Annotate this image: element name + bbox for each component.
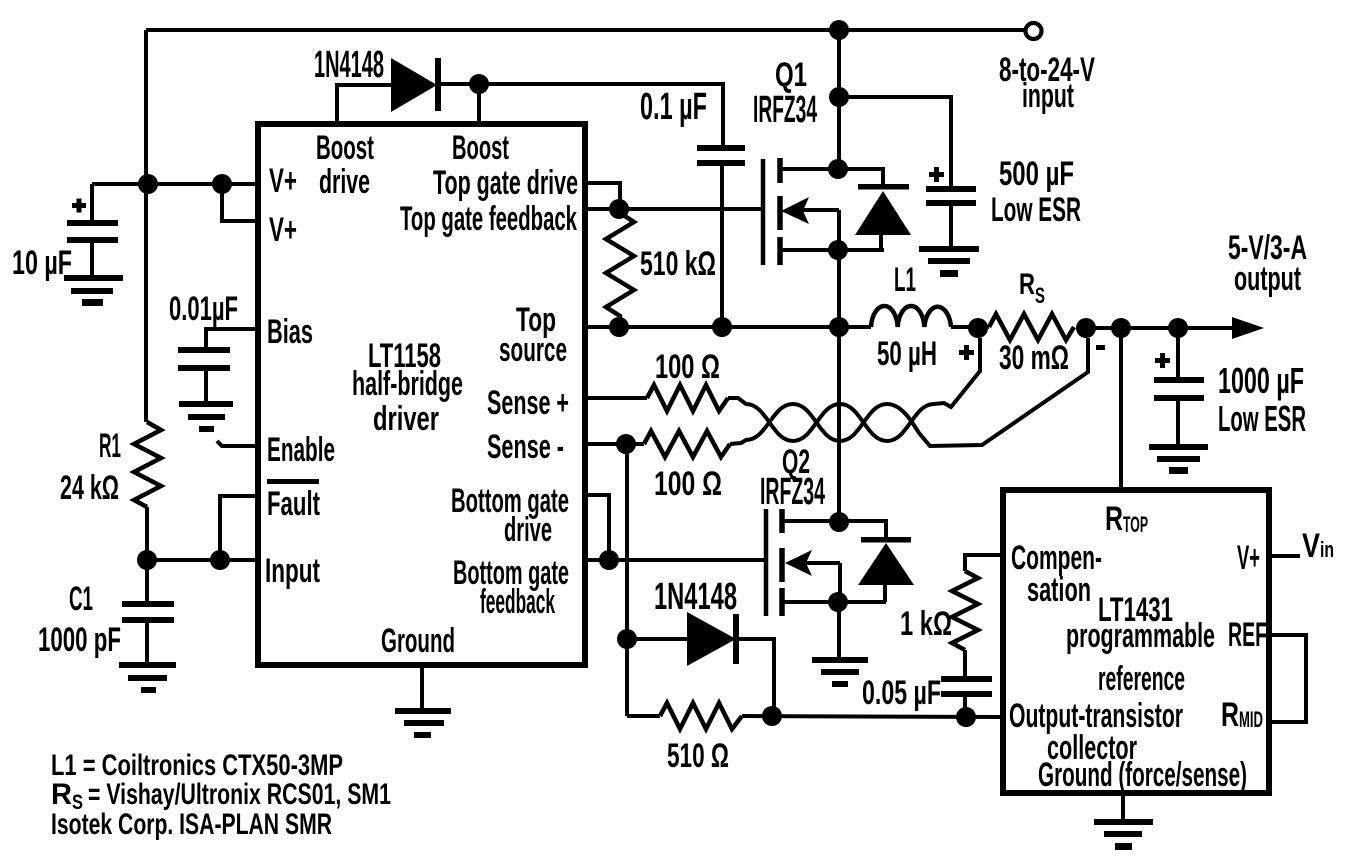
- svg-text:drive: drive: [504, 511, 552, 549]
- capacitor 0.01uF bias wire: [206, 329, 258, 350]
- transistor Q1 channel segments: [777, 158, 783, 183]
- svg-text:R: R: [51, 778, 72, 811]
- svg-text:510 Ω: 510 Ω: [667, 737, 729, 775]
- output arrowhead: [1232, 317, 1264, 339]
- transistor Q1 gate bar: [761, 159, 766, 265]
- junction phase node: [829, 317, 849, 337]
- wire diode cathode to boost node: [441, 82, 470, 86]
- capacitor 1000uF stub: [1176, 328, 1180, 379]
- wire Compensation pin: [965, 555, 1003, 571]
- svg-text:in: in: [1320, 537, 1334, 562]
- resistor 1k zigzag: [952, 571, 978, 650]
- wire 510ohm lead: [627, 714, 660, 718]
- junction L1-Rs sense+: [968, 318, 988, 338]
- polarity minus sense: [1096, 345, 1105, 350]
- svg-text:0.1 µF: 0.1 µF: [640, 86, 707, 128]
- ground C1: [119, 662, 176, 693]
- capacitor 0.1uF stem to top source: [720, 166, 724, 327]
- ground 10uF: [64, 275, 123, 306]
- svg-text:V+: V+: [269, 162, 297, 200]
- svg-text:reference: reference: [1098, 660, 1185, 698]
- diode Q1 body: [855, 184, 911, 235]
- capacitor 0.01uF plates: [178, 347, 230, 371]
- svg-text:input: input: [1022, 77, 1074, 115]
- wire Sense- pin: [585, 442, 644, 446]
- junction bottom gate: [599, 550, 619, 570]
- wire Input pin: [147, 558, 258, 562]
- wire V+ pin: [1269, 554, 1300, 558]
- wire Bottom gate feedback to Q2 gate: [585, 558, 767, 562]
- svg-text:500 µF: 500 µF: [999, 155, 1074, 193]
- svg-text:10 µF: 10 µF: [12, 244, 72, 282]
- wire Q1 drain line to body diode: [780, 169, 883, 185]
- transistor Q2 gate bar: [764, 509, 769, 616]
- diode 1N4148 boost: [391, 58, 441, 112]
- diode 1N4148 bottom: [687, 612, 739, 666]
- svg-text:1000 pF: 1000 pF: [38, 621, 121, 659]
- op-amp U1 LT1158 box: [258, 124, 585, 665]
- svg-text:IRFZ34: IRFZ34: [760, 471, 825, 513]
- svg-text:1 kΩ: 1 kΩ: [900, 605, 952, 643]
- transistor Q1 source arrow: [800, 208, 839, 212]
- transistor Q2 source arrow: [802, 561, 840, 565]
- ground Q2: [812, 657, 868, 687]
- junction boost node: [469, 74, 489, 94]
- wire Top source line: [585, 325, 871, 329]
- junction 1N4148 anode: [617, 629, 637, 649]
- junction Q2 drain: [829, 512, 849, 532]
- wire Top gate drive pin: [585, 183, 620, 201]
- polarity plus 10uF: [72, 199, 86, 213]
- polarity plus 1000uF: [1155, 353, 1170, 368]
- wire Q2 source to ground: [837, 602, 841, 657]
- wire collector line to LT1431: [742, 716, 1003, 717]
- wire diode cathode down: [739, 639, 774, 716]
- capacitor 0.01uF stem: [204, 371, 208, 402]
- capacitor 0.1uF plates: [697, 145, 745, 166]
- wire Q1 body anode stem: [879, 235, 883, 250]
- op-amp U2 LT1431 box: [1003, 490, 1269, 793]
- wire Sense+ pin to 100ohm: [585, 396, 647, 400]
- svg-text:S: S: [1035, 283, 1045, 308]
- capacitor 0.05uF stem: [963, 697, 967, 717]
- capacitor 1000uF stem: [1176, 401, 1180, 446]
- junction Q2 source: [828, 592, 848, 612]
- wire second V+ pin: [222, 184, 258, 221]
- wire Q1 source to phase node: [837, 250, 841, 327]
- svg-text:1N4148: 1N4148: [314, 44, 384, 86]
- resistor 100ohm sense+: [647, 385, 728, 411]
- svg-text:feedback: feedback: [480, 583, 555, 621]
- capacitor 500uF stem: [949, 206, 953, 248]
- polarity plus 500uF: [929, 167, 944, 182]
- svg-text:Ground (force/sense): Ground (force/sense): [1038, 756, 1247, 794]
- wire top supply rail: [146, 28, 1024, 32]
- polarity plus sense: [959, 345, 974, 360]
- wire R1 to input node: [145, 507, 149, 560]
- wire V+ horizontal to LT1158: [92, 182, 258, 186]
- wire Q2 body anode stem: [883, 585, 887, 602]
- capacitor C1 stem top: [145, 560, 149, 604]
- svg-text:Top gate feedback: Top gate feedback: [400, 200, 577, 238]
- wire twisted pair sense-: [730, 338, 1088, 446]
- inductor L1: [871, 306, 951, 327]
- resistor 100ohm sense-: [644, 431, 730, 457]
- svg-text:30 mΩ: 30 mΩ: [999, 339, 1069, 377]
- junction V+ second: [212, 174, 232, 194]
- capacitor 10uF stub: [90, 184, 94, 223]
- capacitor 500uF plates: [926, 186, 976, 206]
- capacitor 10uF stem: [90, 243, 94, 276]
- svg-text:Sense +: Sense +: [487, 384, 569, 422]
- svg-text:TOP: TOP: [1123, 512, 1148, 537]
- wire sense- vertical to diode: [625, 444, 629, 716]
- wire Boost drive pin stub: [337, 85, 391, 124]
- junction fault/input: [210, 550, 230, 570]
- wire phase to Q2 drain: [837, 327, 841, 521]
- transistor Q2 channel segments: [779, 509, 785, 533]
- wire LT1431 top pin: [1119, 328, 1123, 493]
- resistor Rs zigzag: [989, 314, 1074, 340]
- node 8-to-24V input terminal: [1026, 23, 1042, 39]
- junction sense- tap: [616, 434, 636, 454]
- capacitor C1 plates: [122, 601, 174, 623]
- wire Q2 drain line to body diode: [782, 521, 886, 537]
- junction 0.05uF: [956, 707, 976, 727]
- wire REF to RMID loop: [1269, 635, 1306, 722]
- junction Q1 drain: [828, 159, 848, 179]
- svg-text:50 µH: 50 µH: [877, 335, 937, 373]
- wire output line: [1085, 326, 1234, 330]
- svg-text:Low ESR: Low ESR: [991, 191, 1081, 229]
- svg-text:Ground: Ground: [381, 622, 455, 660]
- svg-text:R1: R1: [99, 427, 121, 465]
- svg-text:drive: drive: [319, 163, 370, 201]
- svg-text:R: R: [1019, 268, 1035, 301]
- svg-text:1N4148: 1N4148: [654, 576, 737, 618]
- svg-text:half-bridge: half-bridge: [352, 365, 463, 403]
- junction 510k bottom: [609, 317, 629, 337]
- ground 1000uF: [1149, 444, 1208, 474]
- junction rail top: [829, 20, 849, 40]
- wire left vertical from rail to V+ node: [144, 30, 148, 422]
- svg-text:100 Ω: 100 Ω: [654, 465, 722, 503]
- svg-text:0.05 µF: 0.05 µF: [862, 674, 941, 712]
- svg-text:Fault: Fault: [267, 485, 320, 523]
- wire Enable stub: [217, 441, 258, 446]
- diode Q2 body: [858, 537, 914, 585]
- svg-text:source: source: [499, 331, 567, 369]
- svg-text:Top gate drive: Top gate drive: [433, 164, 578, 202]
- wire twisted pair sense+: [728, 338, 980, 441]
- svg-text:V+: V+: [269, 211, 297, 249]
- capacitor 1000uF plates: [1154, 377, 1204, 401]
- svg-text:MID: MID: [1239, 707, 1263, 732]
- svg-text:= Vishay/Ultronix RCS01, SM1: = Vishay/Ultronix RCS01, SM1: [88, 778, 391, 811]
- ground 500uF: [919, 246, 979, 277]
- junction top gate feedback: [609, 199, 629, 219]
- resistor 510k zigzag: [606, 213, 634, 327]
- svg-text:driver: driver: [373, 400, 439, 438]
- junction LT1431 top: [1111, 318, 1131, 338]
- svg-text:1000 µF: 1000 µF: [1218, 360, 1304, 401]
- svg-text:Boost: Boost: [452, 129, 509, 167]
- wire Q2 source line: [782, 600, 886, 604]
- wire supply vertical to Q1: [837, 30, 841, 169]
- wire L1 to Rs: [951, 325, 989, 329]
- svg-text:R: R: [1105, 500, 1123, 538]
- svg-text:Input: Input: [265, 552, 320, 590]
- svg-text:REF: REF: [1228, 616, 1267, 654]
- svg-text:24 kΩ: 24 kΩ: [60, 469, 119, 507]
- svg-text:C1: C1: [69, 580, 93, 618]
- svg-text:IRFZ34: IRFZ34: [753, 89, 817, 131]
- wire 1k to 0.05uF: [963, 650, 967, 678]
- capacitor 0.05uF plates: [941, 676, 992, 697]
- svg-text:programmable: programmable: [1066, 617, 1215, 655]
- wire Fault pin: [220, 496, 258, 560]
- svg-text:Enable: Enable: [267, 431, 335, 469]
- svg-text:Isotek Corp. ISA-PLAN SMR: Isotek Corp. ISA-PLAN SMR: [51, 808, 332, 841]
- capacitor 10uF plates: [67, 220, 118, 243]
- svg-text:sation: sation: [1027, 571, 1091, 609]
- wire boost node to 0.1uF: [479, 84, 723, 146]
- svg-text:output: output: [1234, 260, 1301, 298]
- wire Q1 source line: [780, 248, 884, 252]
- junction 500uF tap: [829, 87, 849, 107]
- ground LT1431: [1094, 819, 1153, 850]
- wire LT1431 ground stem: [1121, 793, 1125, 819]
- ground LT1158: [420, 665, 424, 710]
- svg-text:Boost: Boost: [316, 129, 374, 167]
- wire Bottom gate drive pin: [585, 495, 609, 560]
- junction Q1 source: [828, 240, 848, 260]
- svg-text:0.01µF: 0.01µF: [169, 290, 238, 328]
- ground 0.01uF: [179, 401, 233, 432]
- junction input left: [137, 550, 157, 570]
- capacitor C1 stem bottom: [145, 623, 149, 663]
- svg-text:Low ESR: Low ESR: [1218, 398, 1306, 439]
- svg-text:Sense -: Sense -: [487, 428, 564, 466]
- svg-text:Bias: Bias: [267, 313, 313, 351]
- svg-text:V+: V+: [1237, 539, 1260, 577]
- wire to diode anode: [627, 637, 687, 641]
- wire Top gate feedback to Q1 gate: [585, 207, 762, 211]
- junction Rs sense-: [1076, 318, 1096, 338]
- svg-text:V: V: [1302, 527, 1320, 565]
- resistor 510ohm zigzag: [660, 703, 742, 729]
- junction V+ left: [138, 174, 158, 194]
- svg-text:510 kΩ: 510 kΩ: [640, 245, 716, 283]
- wire 500uF branch: [839, 97, 951, 189]
- svg-text:L1: L1: [894, 261, 916, 299]
- junction 1000uF: [1168, 318, 1188, 338]
- junction 0.1uF top source: [712, 317, 732, 337]
- junction 510ohm right: [762, 706, 782, 726]
- svg-text:100 Ω: 100 Ω: [655, 348, 720, 386]
- svg-text:R: R: [1221, 696, 1239, 734]
- resistor R1 zigzag: [134, 422, 161, 507]
- wire boost node to Boost pin: [477, 84, 481, 124]
